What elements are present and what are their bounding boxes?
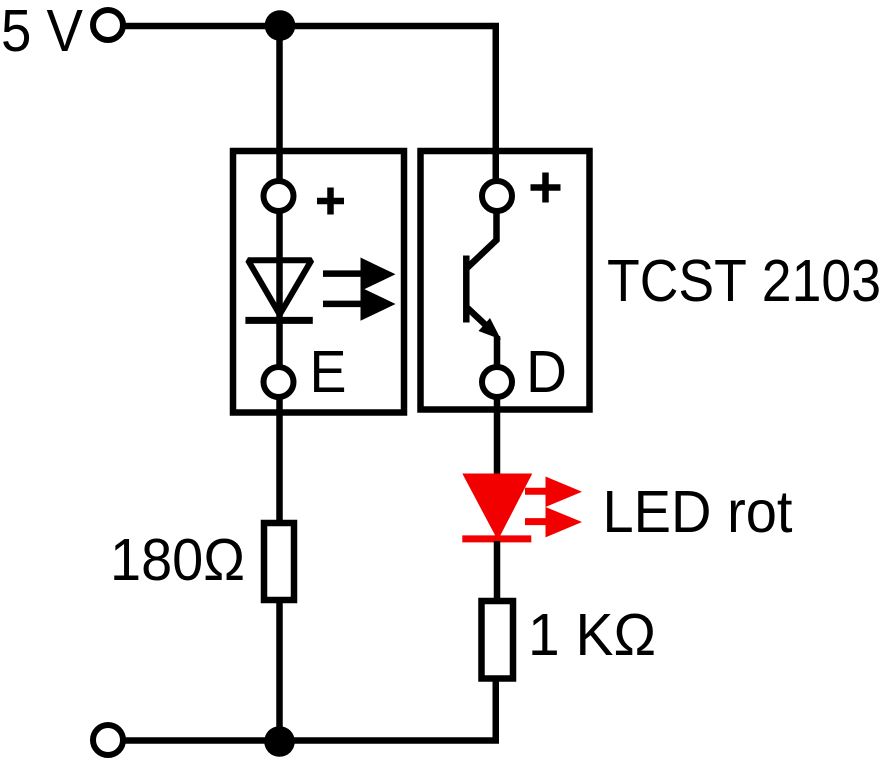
phototransistor collector lead: [468, 211, 497, 268]
svg-text:E: E: [310, 339, 347, 405]
terminal ground return: [93, 725, 123, 755]
IR LED diode triangle: [248, 260, 312, 314]
wire left branch vertical from top junction down through IR LED to 180 ohm resistor: [276, 26, 283, 521]
svg-text:1 KΩ: 1 KΩ: [528, 602, 656, 668]
LED red emission arrow 1 shaft: [525, 488, 552, 495]
svg-text:LED rot: LED rot: [603, 479, 793, 545]
svg-text:TCST 2103: TCST 2103: [607, 248, 881, 314]
IR emission arrow 2 head: [361, 287, 396, 321]
wire right branch vertical from top rail corner down to phototransistor collector terminal: [493, 26, 496, 196]
svg-text:180Ω: 180Ω: [110, 527, 245, 593]
pin terminal E cathode of IR LED: [264, 367, 294, 397]
wire from D terminal down to red LED anode: [494, 397, 501, 477]
label + collector phototransistor: [531, 173, 561, 203]
IR LED cathode bar: [245, 317, 312, 324]
terminal 5V supply: [93, 10, 123, 40]
LED red emission arrow 1 head: [546, 477, 583, 508]
IR emission arrow 1 shaft: [323, 270, 366, 277]
optocoupler detector box (phototransistor side): [421, 151, 590, 410]
svg-text:D: D: [526, 339, 567, 405]
phototransistor emitter arrow head: [479, 318, 502, 340]
label + anode IR LED: [317, 188, 344, 215]
phototransistor emitter wire to D terminal: [494, 336, 501, 370]
pin terminal collector (+) of phototransistor: [482, 181, 512, 211]
pin terminal anode (+) of IR LED: [264, 181, 294, 211]
LED red emission arrow 2 head: [546, 507, 583, 537]
svg-text:5 V: 5 V: [1, 0, 84, 64]
wire red LED cathode to 1K resistor: [494, 541, 501, 601]
resistor 180 ohm body: [264, 523, 294, 600]
phototransistor base bar: [463, 256, 470, 323]
wire 180 ohm resistor to bottom junction: [276, 600, 283, 741]
junction dot bottom node: [264, 726, 295, 757]
IR emission arrow 1 head: [361, 258, 396, 292]
IR emission arrow 2 shaft: [323, 301, 366, 308]
wire bottom rail from 1K resistor down and left to ground terminal: [120, 678, 496, 741]
phototransistor emitter lead: [468, 308, 493, 331]
pin terminal D emitter of phototransistor: [482, 367, 512, 397]
LED red diode triangle (filled): [462, 474, 532, 541]
junction dot top node: [265, 10, 296, 41]
wire top rail from 5V terminal to right branch corner: [120, 23, 493, 30]
optocoupler emitter box (IR LED side): [233, 151, 404, 413]
resistor 1 Kohm body: [482, 601, 514, 679]
LED red cathode bar: [462, 535, 531, 542]
LED red emission arrow 2 shaft: [525, 518, 552, 525]
